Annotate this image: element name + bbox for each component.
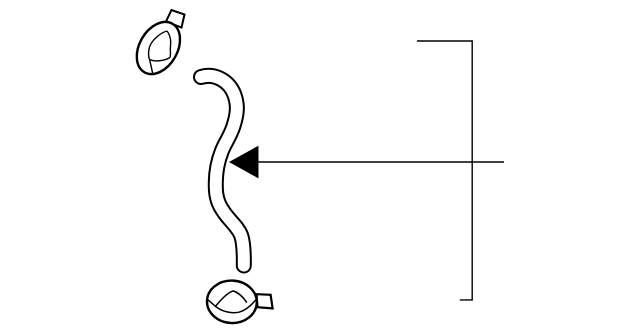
arrow leader line [258,161,504,163]
clamp C2 (bottom hose clamp) tab [257,294,273,308]
clamp C2 inner opening detail [207,291,257,313]
arrowhead (points left at hose) [229,146,259,179]
clamp C1 inner opening detail [149,31,171,74]
hose (curved tube) outline [201,76,244,266]
hose (curved tube) white core [201,76,244,266]
clamp C1 (top hose clamp) outer ring [128,14,189,81]
bracket (right side callout bracket) [417,41,472,300]
clamp C1 (top hose clamp) tab [166,10,185,28]
clamp C2 (bottom hose clamp) outer ring [206,279,258,324]
